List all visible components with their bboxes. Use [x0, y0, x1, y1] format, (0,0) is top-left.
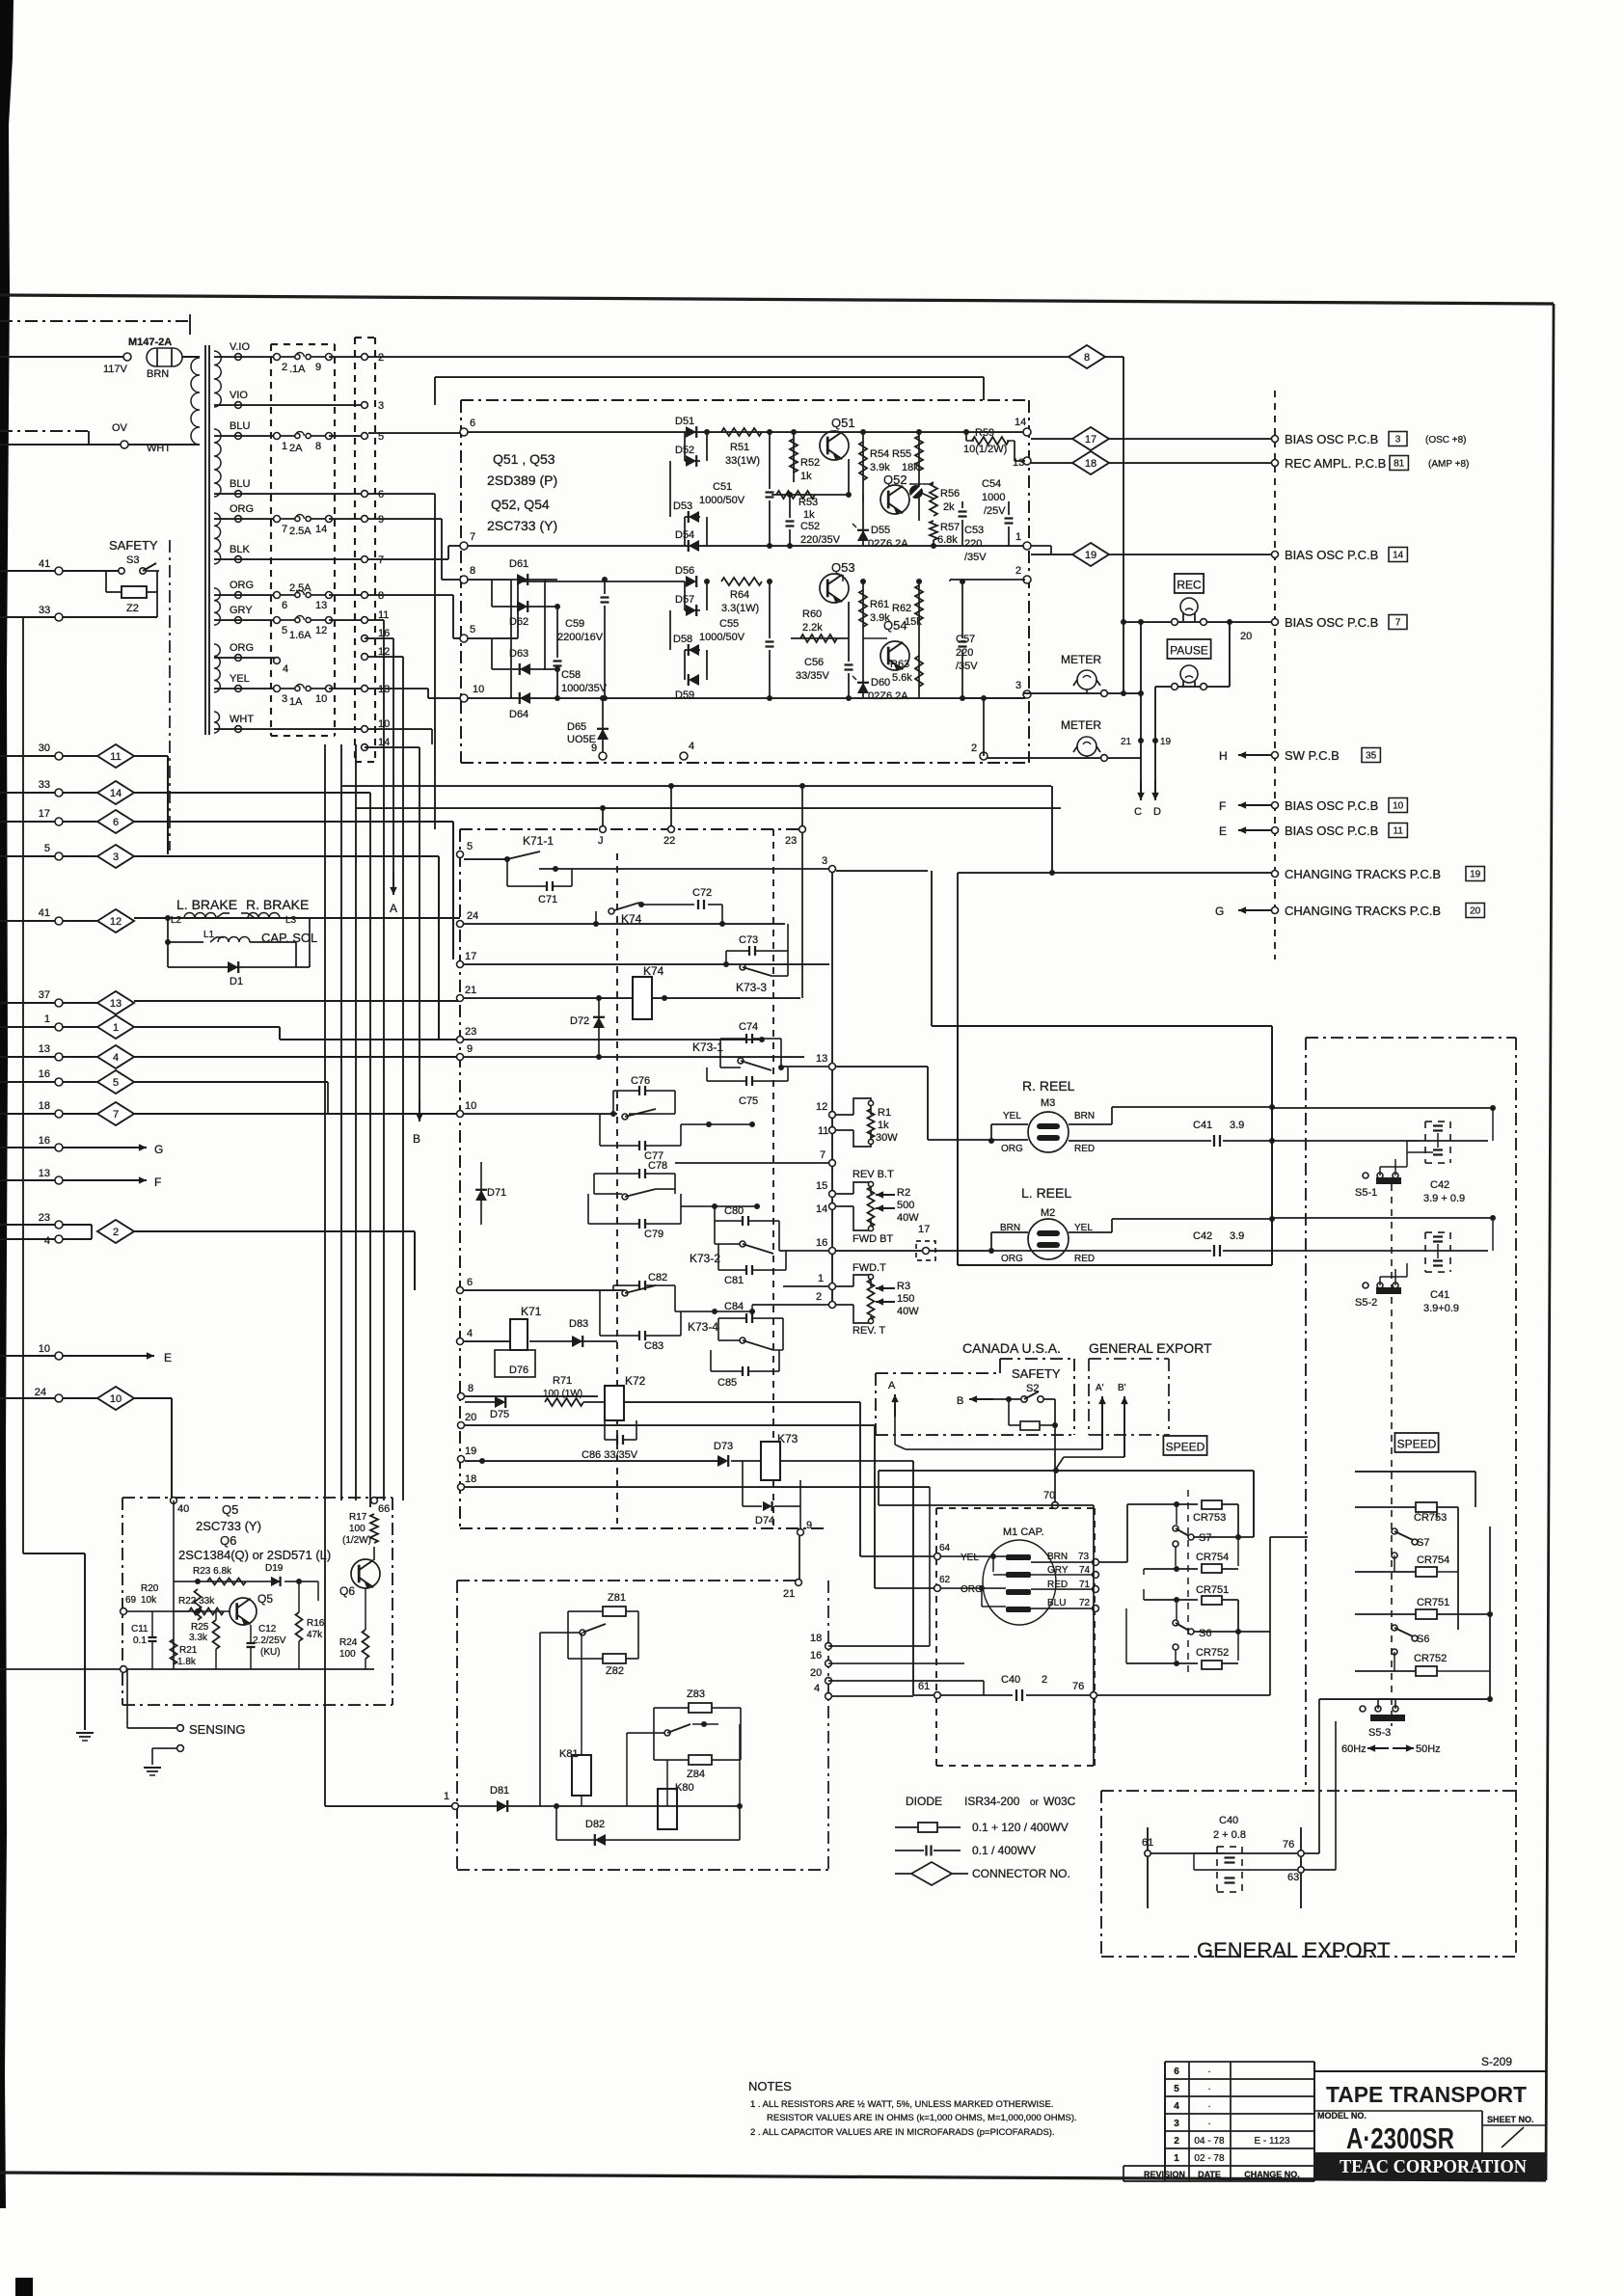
- svg-text:10k: 10k: [141, 1595, 157, 1606]
- C80 C81 K73-2: [742, 1216, 744, 1226]
- diode D65: [602, 698, 604, 756]
- svg-text:(KU): (KU): [260, 1647, 281, 1658]
- K73-1 / C74 C75 group: [745, 1034, 747, 1043]
- Q5 transistor: [230, 1598, 257, 1625]
- svg-text:NOTES: NOTES: [748, 2079, 792, 2093]
- svg-text:6: 6: [470, 418, 475, 429]
- right speed CR group: [1355, 1471, 1475, 1472]
- svg-text:3: 3: [113, 851, 119, 863]
- R64: [721, 578, 762, 585]
- svg-text:A: A: [888, 1380, 896, 1391]
- svg-text:35: 35: [1366, 751, 1377, 762]
- VIO2 rail: [435, 376, 984, 378]
- legend resistor symbol: [895, 1826, 918, 1828]
- R52: [791, 429, 797, 435]
- svg-text:69: 69: [125, 1595, 137, 1606]
- GE dash-dot box: [1101, 1790, 1515, 1792]
- pin 7: [829, 1160, 836, 1167]
- svg-text:30: 30: [39, 743, 50, 754]
- svg-text:D64: D64: [509, 709, 528, 720]
- ground: [76, 1732, 94, 1734]
- svg-text:81: 81: [1394, 459, 1405, 470]
- D83: [529, 1340, 617, 1342]
- svg-text:1.6A: 1.6A: [289, 630, 311, 641]
- svg-text:C53: C53: [964, 525, 984, 536]
- svg-text:C: C: [1134, 806, 1142, 818]
- node 7: [460, 542, 468, 550]
- svg-text:S6: S6: [1199, 1628, 1211, 1639]
- svg-text:METER: METER: [1061, 718, 1101, 732]
- svg-text:BIAS OSC P.C.B: BIAS OSC P.C.B: [1285, 824, 1378, 838]
- svg-text:R61: R61: [870, 599, 889, 610]
- long vertical bus wires: [324, 744, 326, 1806]
- svg-text:D62: D62: [509, 616, 528, 628]
- svg-text:12: 12: [110, 916, 122, 928]
- svg-text:MODEL NO.: MODEL NO.: [1317, 2111, 1367, 2120]
- pin 17 row C73 K73-3: [457, 961, 464, 968]
- svg-text:C56: C56: [804, 657, 824, 668]
- svg-text:1: 1: [818, 1273, 824, 1284]
- pin 16 wire FWD BT: [829, 1248, 836, 1255]
- svg-text:K74: K74: [643, 964, 664, 978]
- svg-text:2.5A: 2.5A: [289, 526, 311, 537]
- svg-text:Q51: Q51: [831, 416, 855, 430]
- svg-text:1k: 1k: [800, 471, 812, 482]
- K71-1 contact: [457, 851, 464, 858]
- svg-text:3: 3: [1174, 2119, 1179, 2129]
- C41 cap: [1069, 1140, 1211, 1142]
- svg-text:C57: C57: [956, 634, 975, 645]
- svg-text:76: 76: [1283, 1839, 1294, 1850]
- wires to GE box: [1318, 1699, 1320, 1853]
- svg-text:R20: R20: [141, 1583, 159, 1594]
- svg-text:1000/35V: 1000/35V: [561, 683, 608, 694]
- svg-text:VIO: VIO: [230, 390, 248, 401]
- vertical to terminal 23: [801, 833, 803, 998]
- svg-text:S7: S7: [1417, 1537, 1429, 1549]
- D55 zener: [862, 495, 864, 546]
- svg-text:D53: D53: [673, 500, 692, 512]
- svg-text:BRN: BRN: [1074, 1111, 1095, 1121]
- svg-text:E: E: [1219, 824, 1227, 838]
- svg-text:2: 2: [1015, 565, 1021, 577]
- svg-text:S5-2: S5-2: [1355, 1297, 1377, 1309]
- svg-text:17: 17: [918, 1224, 930, 1235]
- svg-text:6: 6: [1174, 2066, 1179, 2077]
- svg-text:R63: R63: [890, 659, 909, 670]
- svg-text:22: 22: [663, 835, 675, 847]
- svg-text:OV: OV: [112, 422, 128, 434]
- pin 16 to connector 17: [836, 1250, 988, 1252]
- svg-text:SW P.C.B: SW P.C.B: [1285, 748, 1340, 763]
- svg-text:D75: D75: [490, 1409, 509, 1420]
- pin 8 D75 R71 K72: [458, 1393, 465, 1400]
- R24: [363, 1630, 369, 1659]
- C82 C83 group: [457, 1287, 464, 1294]
- D19: [271, 1577, 281, 1586]
- primary return 0V: [128, 444, 200, 446]
- svg-text:METER: METER: [1061, 653, 1101, 666]
- svg-text:8: 8: [468, 1383, 474, 1394]
- R22: [174, 1610, 230, 1612]
- svg-text:B: B: [957, 1395, 963, 1407]
- svg-text:14: 14: [1015, 417, 1026, 428]
- svg-text:6.8k: 6.8k: [937, 534, 958, 546]
- svg-text:9: 9: [315, 362, 321, 373]
- svg-text:2: 2: [282, 362, 287, 373]
- svg-text:11: 11: [1394, 826, 1404, 837]
- svg-text:BRN: BRN: [1047, 1552, 1068, 1562]
- svg-text:4: 4: [467, 1328, 473, 1339]
- svg-text:B: B: [413, 1132, 420, 1146]
- D76: [495, 1350, 535, 1377]
- svg-text:Z82: Z82: [606, 1665, 624, 1677]
- cap C72: [697, 900, 699, 909]
- A B arrows: [392, 638, 394, 892]
- C40 2: [934, 1692, 941, 1699]
- svg-text:Q5: Q5: [222, 1502, 238, 1517]
- svg-text:18: 18: [810, 1633, 822, 1644]
- svg-text:76: 76: [1072, 1681, 1084, 1692]
- svg-text:YEL: YEL: [961, 1553, 979, 1563]
- svg-text:·: ·: [1207, 2101, 1210, 2112]
- transformer core: [204, 345, 206, 735]
- power transformer T1 primary feed: [0, 356, 123, 358]
- Z83 Z84 group: [689, 1703, 712, 1713]
- D82: [556, 1839, 740, 1841]
- svg-text:50Hz: 50Hz: [1416, 1743, 1441, 1755]
- wire from S2 to pin 70: [878, 1471, 880, 1505]
- svg-text:10: 10: [1393, 801, 1404, 812]
- R56 pot: [918, 473, 920, 521]
- svg-text:C71: C71: [538, 894, 557, 905]
- svg-text:C81: C81: [724, 1275, 744, 1286]
- svg-text:16: 16: [39, 1068, 50, 1080]
- svg-text:16: 16: [39, 1135, 50, 1147]
- svg-text:2: 2: [1042, 1674, 1047, 1686]
- svg-text:K73-2: K73-2: [690, 1252, 720, 1265]
- svg-text:YEL: YEL: [1003, 1111, 1021, 1121]
- svg-text:CHANGING TRACKS P.C.B: CHANGING TRACKS P.C.B: [1285, 904, 1441, 918]
- dash-dot top-left lead: [0, 320, 190, 322]
- svg-text:R24: R24: [339, 1637, 358, 1648]
- svg-text:W03C: W03C: [1043, 1795, 1076, 1808]
- svg-text:BLU: BLU: [230, 420, 250, 432]
- pins 14 13 1: [1023, 428, 1031, 436]
- svg-text:M2: M2: [1041, 1207, 1055, 1219]
- svg-text:/25V: /25V: [984, 505, 1006, 517]
- svg-text:23: 23: [465, 1026, 476, 1038]
- H F E G rows: [1272, 752, 1279, 759]
- svg-text:24: 24: [35, 1387, 46, 1398]
- svg-text:·: ·: [1207, 2119, 1210, 2129]
- svg-text:500: 500: [897, 1200, 914, 1211]
- right solid bus pin 3: [829, 866, 836, 873]
- svg-text:3.3k: 3.3k: [189, 1633, 208, 1643]
- D73 K73 coil D74: [717, 1455, 728, 1467]
- svg-text:R2: R2: [897, 1187, 910, 1199]
- svg-text:20: 20: [1240, 631, 1252, 642]
- general export box: [1088, 1359, 1090, 1435]
- svg-text:RED: RED: [1074, 1144, 1095, 1154]
- svg-text:2SD389 (P): 2SD389 (P): [487, 473, 557, 488]
- svg-text:30W: 30W: [876, 1132, 898, 1144]
- svg-text:4: 4: [1174, 2101, 1179, 2112]
- svg-text:K81: K81: [559, 1748, 579, 1760]
- svg-text:73: 73: [1078, 1552, 1090, 1562]
- svg-text:K80: K80: [675, 1782, 694, 1794]
- svg-text:8: 8: [1084, 352, 1090, 364]
- REC AMPL PCB 81: [1272, 460, 1279, 467]
- chassis dash-dot boundary: [169, 540, 171, 851]
- D60 zener: [862, 638, 864, 698]
- svg-text:SPEED: SPEED: [1397, 1437, 1437, 1450]
- svg-text:R23 6.8k: R23 6.8k: [193, 1566, 232, 1577]
- svg-text:ISR34-200: ISR34-200: [964, 1795, 1020, 1808]
- svg-text:3.9 + 0.9: 3.9 + 0.9: [1423, 1193, 1465, 1204]
- svg-text:C79: C79: [644, 1229, 663, 1240]
- rectifier D63: [492, 668, 557, 670]
- svg-text:3.9: 3.9: [1230, 1230, 1244, 1242]
- svg-text:R22 33k: R22 33k: [178, 1596, 215, 1607]
- svg-text:BIAS OSC P.C.B: BIAS OSC P.C.B: [1285, 615, 1378, 630]
- BIAS OSC PCB 7 line: [1122, 621, 1271, 623]
- svg-text:2: 2: [113, 1227, 119, 1238]
- svg-text:17: 17: [465, 951, 476, 962]
- svg-text:2200/16V: 2200/16V: [557, 632, 604, 643]
- svg-text:11: 11: [818, 1125, 828, 1137]
- R54: [860, 429, 866, 435]
- svg-text:2k: 2k: [943, 501, 955, 513]
- svg-text:2SC1384(Q) or 2SD571 (L): 2SC1384(Q) or 2SD571 (L): [178, 1548, 331, 1562]
- svg-text:C51: C51: [713, 481, 732, 493]
- svg-text:5: 5: [44, 843, 50, 854]
- svg-text:6: 6: [378, 489, 384, 500]
- CAP.SOL coil L1: [165, 939, 171, 945]
- transformer primary winding: [191, 358, 200, 445]
- svg-text:6: 6: [113, 817, 119, 828]
- svg-text:D65: D65: [567, 721, 586, 733]
- svg-text:12: 12: [315, 625, 327, 636]
- svg-text:DIODE: DIODE: [906, 1795, 942, 1808]
- svg-text:13: 13: [1013, 457, 1024, 469]
- pins 20 19 18: [458, 1422, 465, 1429]
- fuse M147-2A: [147, 348, 182, 366]
- svg-text:GRY: GRY: [230, 605, 253, 616]
- svg-text:B': B': [1118, 1383, 1126, 1393]
- S2 switch: [969, 1398, 993, 1400]
- svg-text:K71-1: K71-1: [523, 834, 554, 848]
- svg-text:R54: R54: [870, 448, 889, 460]
- R61: [860, 579, 866, 584]
- svg-text:V.IO: V.IO: [230, 341, 250, 353]
- svg-text:2SC733 (Y): 2SC733 (Y): [487, 518, 557, 533]
- svg-text:C54: C54: [982, 478, 1001, 490]
- svg-text:R52: R52: [800, 457, 820, 469]
- svg-text:33: 33: [39, 779, 50, 791]
- svg-text:D72: D72: [570, 1015, 589, 1027]
- svg-text:33: 33: [39, 605, 50, 616]
- svg-text:13: 13: [110, 998, 122, 1010]
- sensing terminals: [127, 1727, 176, 1729]
- bias network: [174, 1580, 280, 1582]
- svg-text:F: F: [1219, 799, 1226, 813]
- C42 cap: [988, 1250, 1211, 1252]
- svg-text:·: ·: [1207, 2066, 1210, 2077]
- long rails below regulator: [342, 785, 1051, 787]
- svg-text:100: 100: [349, 1524, 365, 1534]
- varistor Z2: [122, 586, 147, 598]
- svg-text:D83: D83: [569, 1318, 588, 1330]
- svg-text:K71: K71: [521, 1305, 542, 1318]
- svg-text:CR753: CR753: [1193, 1512, 1226, 1524]
- svg-text:REV B.T: REV B.T: [853, 1169, 894, 1180]
- svg-text:72: 72: [1079, 1598, 1091, 1608]
- D58 D59: [684, 650, 686, 680]
- svg-text:220/35V: 220/35V: [800, 534, 841, 546]
- svg-text:4: 4: [283, 663, 288, 675]
- svg-text:D57: D57: [675, 594, 694, 606]
- svg-text:D54: D54: [675, 529, 694, 541]
- svg-text:(1/2W): (1/2W): [342, 1535, 371, 1546]
- D51 D52 chain: [684, 432, 686, 461]
- svg-text:(OSC +8): (OSC +8): [1425, 435, 1467, 446]
- svg-text:M1 CAP.: M1 CAP.: [1003, 1526, 1044, 1538]
- pins right edge: [796, 1580, 802, 1586]
- Q6 transistor: [351, 1559, 380, 1588]
- svg-text:.1A: .1A: [289, 364, 306, 375]
- svg-text:GENERAL EXPORT: GENERAL EXPORT: [1197, 1938, 1391, 1962]
- connector strip dashed: [354, 338, 356, 762]
- node 10: [460, 694, 468, 702]
- svg-text:Z84: Z84: [687, 1769, 705, 1780]
- R55: [916, 429, 922, 435]
- svg-text:2: 2: [971, 743, 977, 754]
- svg-text:23: 23: [39, 1212, 50, 1224]
- C84 C85 K73-4: [745, 1313, 747, 1323]
- svg-text:220: 220: [956, 647, 973, 659]
- svg-text:14: 14: [315, 524, 327, 535]
- svg-text:R53: R53: [798, 497, 818, 508]
- relay box dash-dot: [460, 828, 808, 830]
- svg-text:CR752: CR752: [1414, 1653, 1447, 1664]
- svg-text:8: 8: [378, 590, 384, 602]
- svg-text:CR752: CR752: [1196, 1647, 1229, 1659]
- svg-text:D71: D71: [487, 1187, 506, 1199]
- output diamonds 17 18 19: [1031, 438, 1072, 440]
- svg-text:R51: R51: [730, 442, 749, 453]
- R63: [918, 622, 920, 698]
- svg-text:21: 21: [783, 1588, 795, 1600]
- svg-text:FWD BT: FWD BT: [853, 1233, 893, 1245]
- svg-text:C82: C82: [648, 1272, 667, 1283]
- S5-2 C41 group: [1272, 1217, 1493, 1219]
- svg-text:R17: R17: [349, 1512, 367, 1523]
- M1 right pins: [1093, 1559, 1099, 1566]
- CHANGING TRACKS 20: [1272, 907, 1279, 914]
- svg-text:1: 1: [282, 441, 287, 452]
- BIAS OSC PCB 14: [1272, 552, 1279, 558]
- svg-text:D76: D76: [509, 1364, 528, 1376]
- svg-text:Q6: Q6: [339, 1584, 355, 1598]
- svg-text:REC AMPL. P.C.B: REC AMPL. P.C.B: [1285, 456, 1386, 471]
- safety S2 box (notched dash-dot): [876, 1372, 1000, 1374]
- svg-text:TEAC CORPORATION: TEAC CORPORATION: [1340, 2156, 1528, 2177]
- transformer secondary windings: [214, 351, 221, 407]
- svg-text:K72: K72: [625, 1374, 646, 1388]
- svg-text:SAFETY: SAFETY: [1012, 1366, 1061, 1381]
- svg-text:L. BRAKE: L. BRAKE: [176, 897, 237, 912]
- pin 24 row K74 contact: [457, 921, 464, 928]
- svg-text:1: 1: [113, 1022, 119, 1034]
- Q52 transistor: [880, 485, 909, 514]
- svg-text:S-209: S-209: [1481, 2055, 1512, 2068]
- svg-text:Z81: Z81: [608, 1592, 626, 1604]
- svg-text:D55: D55: [871, 525, 890, 536]
- S5 dashed box: [1305, 1038, 1307, 1791]
- svg-text:M147-2A: M147-2A: [128, 337, 172, 348]
- svg-text:(AMP +8): (AMP +8): [1428, 459, 1469, 470]
- svg-text:TAPE TRANSPORT: TAPE TRANSPORT: [1326, 2082, 1527, 2107]
- svg-text:7: 7: [1395, 618, 1401, 629]
- R59: [966, 440, 974, 442]
- svg-text:10: 10: [465, 1100, 476, 1112]
- svg-text:3.3(1W): 3.3(1W): [721, 603, 759, 614]
- node 8: [460, 576, 468, 583]
- svg-text:19: 19: [1160, 737, 1172, 747]
- Q5 box dash-dot: [122, 1497, 392, 1499]
- svg-text:2: 2: [1174, 2136, 1179, 2147]
- rectifier D61: [510, 580, 512, 698]
- svg-text:C72: C72: [692, 887, 712, 899]
- svg-text:6: 6: [282, 600, 287, 611]
- C86: [604, 1420, 606, 1440]
- svg-text:14: 14: [816, 1203, 827, 1215]
- svg-text:R56: R56: [940, 488, 960, 500]
- GE C40 group: [1300, 1827, 1302, 1908]
- svg-text:1.8k: 1.8k: [177, 1657, 197, 1667]
- svg-text:10(1/2W): 10(1/2W): [963, 444, 1007, 455]
- svg-text:SAFETY: SAFETY: [109, 538, 158, 553]
- R57: [930, 521, 937, 540]
- svg-text:C55: C55: [719, 618, 739, 630]
- svg-text:ORG: ORG: [1001, 1144, 1023, 1154]
- svg-text:D51: D51: [675, 416, 694, 427]
- svg-text:61: 61: [1142, 1837, 1153, 1849]
- CHANGING TRACKS 19: [1272, 871, 1279, 878]
- svg-text:S5-3: S5-3: [1368, 1727, 1391, 1739]
- svg-text:BIAS OSC P.C.B: BIAS OSC P.C.B: [1285, 548, 1378, 562]
- wire to pin 3: [539, 868, 829, 870]
- svg-text:150: 150: [897, 1293, 914, 1305]
- R16: [296, 1612, 303, 1641]
- svg-text:14: 14: [110, 788, 122, 799]
- svg-text:CR754: CR754: [1417, 1554, 1449, 1566]
- svg-text:37: 37: [39, 989, 50, 1001]
- lower relay dash-dot box: [456, 1580, 458, 1870]
- svg-text:L3: L3: [285, 915, 297, 926]
- svg-text:K73-3: K73-3: [736, 981, 767, 994]
- svg-text:A·2300SR: A·2300SR: [1346, 2121, 1454, 2155]
- node 5: [460, 635, 468, 642]
- fuse block dashed box: [270, 344, 272, 736]
- cap C58: [556, 607, 558, 658]
- node 6: [460, 428, 468, 436]
- svg-text:2.2/25V: 2.2/25V: [253, 1635, 286, 1646]
- svg-text:R1: R1: [878, 1107, 891, 1119]
- pin 21 K74 coil D72: [457, 995, 464, 1002]
- pins 2 3: [1023, 576, 1031, 583]
